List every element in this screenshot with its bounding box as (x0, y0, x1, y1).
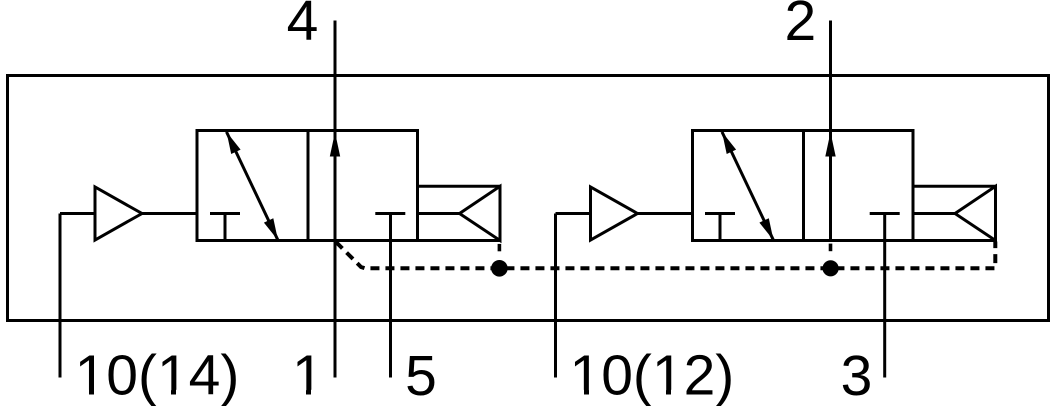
glyph foot mask: 10(12) second 1 (655, 390, 667, 398)
valve V2 blocked port T (box 1) (705, 214, 735, 241)
glyph foot mask: 10(14) first 1 (78, 390, 90, 398)
pneumatic spring return V1 triangle (460, 186, 501, 240)
valve V1 body (197, 131, 418, 241)
valve V2 blocked port T (box 2, port 3) (870, 212, 900, 215)
valve V1 blocked port T (box 2, port 5) (375, 212, 405, 215)
svg-text:3: 3 (841, 344, 873, 406)
dashed branch from spring return V1 (498, 244, 502, 251)
pilot actuator 10(12) triangle (591, 187, 638, 240)
valve V2 crossed flow arrow (box 1) (722, 132, 774, 240)
svg-text:4: 4 (287, 0, 319, 53)
pneumatic spring return V2 triangle (955, 186, 996, 240)
pneumatic spring return V1 box (418, 186, 501, 240)
pneumatic spring return V1 bottom edge (418, 239, 501, 242)
pneumatic spring return V2 bottom edge (913, 239, 996, 242)
valve V2 box divider (802, 131, 805, 241)
svg-text:2: 2 (784, 0, 816, 53)
valve V1 flow-path arrowhead (port 1 to 4) (330, 132, 340, 156)
svg-text:5: 5 (405, 344, 437, 406)
pneumatic spring return V2 box (913, 186, 996, 240)
pilot line 10(14) down to port label (59, 214, 62, 378)
valve V1 crossed flow arrow (box 1) (227, 132, 279, 240)
port 2 line (valve V2) (829, 21, 832, 241)
valve V2 flow-path arrowhead (port 1 to 2) (825, 132, 835, 156)
wire: pilot triangle to valve V2 (638, 212, 693, 215)
junction dot A (491, 260, 508, 277)
glyph foot mask: 10(14) second 1 (160, 390, 172, 398)
wire: pilot triangle to valve V1 (142, 212, 197, 215)
wire: valve V1 to spring triangle (418, 212, 460, 215)
pilot line 10(12) down to port label (554, 214, 557, 378)
glyph foot mask: 10(12) first 1 (573, 390, 585, 398)
pilot actuator 10(14) triangle (95, 187, 142, 240)
manifold outer box (8, 76, 1049, 321)
pilot actuator 10(12): line from manifold (556, 212, 591, 215)
valve V1 blocked port T (box 1) (210, 214, 240, 241)
wire: valve V2 to spring triangle (913, 212, 955, 215)
port 3 line (883, 214, 886, 378)
junction dot B (823, 260, 839, 276)
valve V2 body (693, 131, 914, 241)
port 5 line (389, 214, 392, 378)
glyph foot mask: label 1 (295, 390, 307, 398)
dashed branch from port 2 line (829, 244, 833, 252)
port 4 line (4 to 1 passage) (334, 21, 337, 378)
valve V1 box divider (307, 131, 310, 241)
dashed pilot signal line (port 1 branch to spring V2) (336, 242, 995, 269)
pilot actuator 10(14): line from manifold (60, 212, 95, 215)
